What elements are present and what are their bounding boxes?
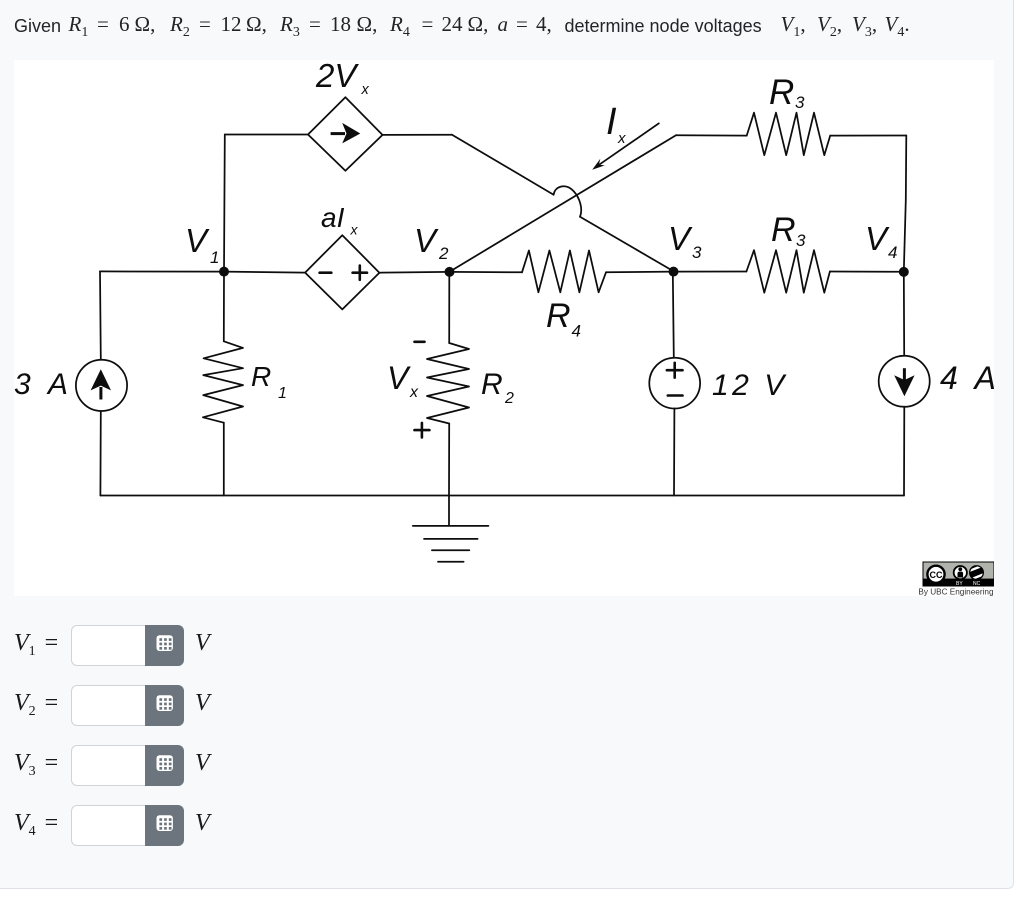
wire main horizontal from left branch to V1 [100,270,224,272]
Vx minus sign [415,340,425,343]
dependent source aIx diamond [305,235,379,309]
wire from V1 to aIx diamond [224,272,305,273]
svg-text:R: R [546,297,571,335]
wire right vertical from top to node V4 [904,136,907,272]
wire bottom horizontal [100,495,904,497]
ground bar 1 [413,525,489,527]
svg-text:aI: aI [321,202,345,233]
svg-text:R: R [481,368,503,401]
node V2 junction dot [445,267,455,277]
12V minus sign [668,394,683,397]
resistor R3 (middle) zigzag [746,250,830,293]
wire from V2 to R4 [450,271,523,273]
svg-text:2: 2 [504,390,514,407]
svg-text:x: x [361,82,370,98]
wire 3A source to bottom [99,411,101,496]
wire from R3 middle to V4 [830,271,904,273]
wire 12V source to bottom [673,409,675,496]
svg-text:V: V [387,360,411,396]
Ix arrow line [599,123,659,164]
wire from R3 top to right edge [830,135,906,137]
wire R2 to bottom [448,424,450,496]
wire V1 down to R1 [223,272,225,342]
ground bar 4 [438,561,464,563]
12V plus sign [667,363,683,378]
node V1 junction dot [219,267,229,277]
wire 4A source to bottom [903,407,905,496]
svg-text:V: V [668,220,693,257]
resistor R4 zigzag [522,251,606,293]
resistor R1 zigzag [203,341,243,422]
svg-text:V: V [414,222,439,259]
svg-text:3: 3 [796,231,806,250]
svg-text:CC: CC [930,570,943,580]
svg-text:R: R [769,73,794,112]
svg-text:x: x [409,384,419,401]
3A source arrow [99,387,102,400]
svg-text:By UBC Engineering: By UBC Engineering [918,588,994,596]
ground stub [448,496,450,526]
wire from V3 to R3 (middle) [674,271,747,273]
CC license badge [923,562,994,586]
wire top-right horizontal to R3 [676,134,747,136]
wire top horizontal right of 2Vx diamond [383,134,453,136]
wire from R4 to V3 [606,271,674,274]
Ix arrowhead [592,159,605,170]
svg-text:4: 4 [572,322,581,341]
svg-text:BY: BY [956,581,963,587]
svg-text:3: 3 [795,93,805,112]
aIx plus sign [353,266,367,280]
svg-text:12 V: 12 V [712,369,788,402]
svg-text:R: R [251,361,271,392]
current source 3A circle [76,360,127,411]
resistor R2 zigzag [427,343,469,424]
wire left branch down to 3A source [99,271,102,359]
current source 4A circle [879,356,930,407]
node V3 junction dot [669,267,679,277]
resistor R3 (top) zigzag [747,113,831,156]
dependent source 2Vx diamond [308,97,383,171]
svg-text:I: I [606,101,617,143]
svg-text:R: R [771,211,796,249]
svg-text:1: 1 [210,248,219,267]
ground bar 2 [424,538,478,540]
4A source arrow [903,368,906,380]
wire V3 down to 12V source [673,272,674,358]
wire left vertical from top wire to node V1 [223,135,226,272]
node V4 junction dot [899,267,909,277]
svg-text:3 A: 3 A [14,368,73,401]
wire top-left horizontal [225,134,308,136]
svg-text:x: x [350,222,359,238]
svg-text:V: V [865,220,890,257]
wire R1 to bottom [223,423,225,496]
aIx minus sign [320,271,332,274]
svg-text:V: V [185,222,210,259]
voltage source 12V circle [649,358,700,409]
svg-text:1: 1 [278,385,287,402]
svg-text:4: 4 [888,243,897,262]
svg-text:2V: 2V [315,60,359,94]
wire diagonal from node V2 to top right wire [450,135,677,272]
Vx plus sign [415,423,430,438]
2Vx source arrow [331,132,345,135]
wire from aIx diamond to V2 [379,271,449,274]
svg-text:4 A: 4 A [940,360,994,396]
wire V4 down to 4A source [903,272,905,356]
svg-text:2: 2 [438,244,449,263]
wire V2 down to R2 [448,272,450,343]
svg-text:x: x [617,130,626,147]
wire hop arc over crossing [554,186,582,216]
svg-text:NC: NC [973,581,981,587]
svg-text:3: 3 [692,243,702,262]
ground bar 3 [432,549,469,551]
wire diagonal from top wire to node V3 (with hop) [452,135,674,272]
